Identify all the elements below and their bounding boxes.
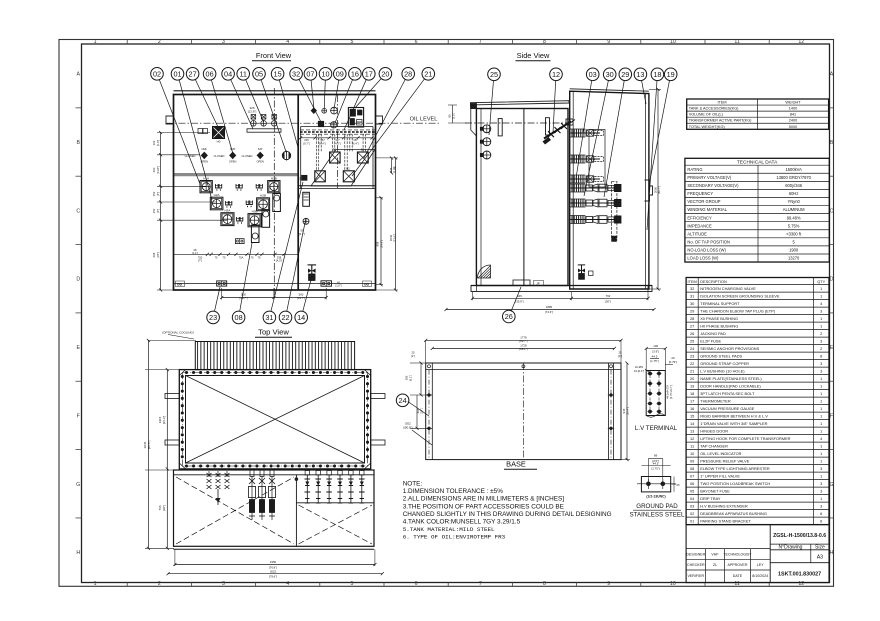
svg-text:100: 100: [653, 344, 658, 348]
svg-text:5: 5: [350, 39, 353, 45]
svg-text:TWO POSITION LOADBREAK SWITCH: TWO POSITION LOADBREAK SWITCH: [700, 481, 770, 486]
svg-text:3: 3: [222, 581, 225, 587]
callout 17: [363, 68, 376, 81]
side view left top dim 85: [452, 105, 454, 123]
top view tank flange rect: [179, 370, 370, 469]
svg-text:10: 10: [670, 39, 676, 45]
svg-text:LEY: LEY: [757, 563, 764, 567]
top view cabinet divider horizontal right: [296, 502, 374, 504]
svg-text:[6.4"]: [6.4"]: [319, 141, 325, 145]
svg-text:WINDING MATERIAL: WINDING MATERIAL: [687, 207, 727, 212]
svg-text:OML: OML: [201, 147, 207, 151]
svg-text:G: G: [829, 482, 833, 488]
svg-text:1: 1: [820, 376, 822, 381]
front view vertical centerline left compartment: [273, 88, 275, 296]
svg-text:[30"]: [30"]: [162, 505, 166, 511]
svg-text:[36.3"]: [36.3"]: [162, 416, 166, 425]
top view bottom overall dim: [168, 573, 382, 575]
svg-text:[72.6"]: [72.6"]: [393, 234, 397, 242]
svg-text:[4.6"]: [4.6"]: [334, 141, 340, 145]
front interior dimension chain: [173, 253, 298, 255]
svg-text:3: 3: [820, 361, 822, 366]
svg-text:N°Drawing: N°Drawing: [779, 545, 803, 551]
inner border frame: [82, 44, 830, 583]
HV nitrogen charging valve block: [318, 121, 323, 126]
svg-text:H: H: [76, 550, 80, 556]
svg-text:[19.7"]: [19.7"]: [240, 296, 248, 300]
front foot pad left: [217, 281, 227, 286]
svg-text:ELBOW TYPE LIGHTNING ARRESTER: ELBOW TYPE LIGHTNING ARRESTER: [700, 466, 770, 471]
svg-text:GROUND STRAP COPPER: GROUND STRAP COPPER: [700, 361, 749, 366]
svg-text:JACKING PAD: JACKING PAD: [700, 331, 726, 336]
ground pad plate: [641, 477, 670, 492]
base left rail: [431, 363, 433, 460]
svg-text:LIFTING HOOK FOR COMPLETE TRAN: LIFTING HOOK FOR COMPLETE TRANSFORMER: [700, 436, 790, 441]
svg-text:[Ø0.9"]: [Ø0.9"]: [404, 425, 413, 429]
svg-text:H0: H0: [217, 140, 221, 144]
svg-text:[1"]: [1"]: [618, 354, 622, 358]
svg-text:1: 1: [820, 391, 822, 396]
front view right lifting lug: [376, 116, 383, 124]
svg-text:1: 1: [820, 451, 822, 456]
svg-text:2: 2: [158, 581, 161, 587]
top view cabinet top flange lines: [174, 474, 375, 476]
elbow terminal pair row1 b: [236, 184, 242, 188]
svg-text:D: D: [76, 277, 80, 283]
svg-text:TAP CHANGER: TAP CHANGER: [700, 443, 728, 448]
side view cabinet lower valve: [581, 265, 583, 280]
svg-text:OIL LEVEL INDICATOR: OIL LEVEL INDICATOR: [700, 451, 741, 456]
svg-text:GD: GD: [364, 283, 370, 287]
ground pad holes: [646, 482, 650, 486]
svg-text:WEIGHT: WEIGHT: [785, 101, 801, 105]
svg-text:NAME PLATE(STAINLESS STEEL): NAME PLATE(STAINLESS STEEL): [700, 376, 762, 381]
callout 08: [232, 311, 245, 324]
HV small gauge below: [303, 218, 309, 224]
svg-text:A3: A3: [817, 555, 823, 561]
front view right dimension line B: [395, 158, 397, 290]
side view tank body: [476, 109, 568, 286]
svg-text:PRIMARY VOLTAGE(V): PRIMARY VOLTAGE(V): [687, 175, 731, 180]
svg-text:12: 12: [798, 581, 804, 587]
svg-text:RATING: RATING: [687, 167, 702, 172]
svg-text:Top View: Top View: [258, 328, 289, 337]
LV bushing H3B: [248, 214, 261, 227]
svg-text:(1/2-13UNC): (1/2-13UNC): [646, 495, 665, 499]
side view HV bushing stack rows upper: [570, 132, 600, 134]
top view middle bayonet assemblies: [250, 470, 254, 477]
svg-text:CLOSED: CLOSED: [214, 154, 225, 158]
svg-text:1: 1: [94, 39, 97, 45]
callout 31: [263, 311, 276, 324]
svg-text:FREQUENCY: FREQUENCY: [687, 191, 713, 196]
svg-text:YNyn0: YNyn0: [788, 199, 801, 204]
side view H0 bushing diagonal: [544, 121, 571, 138]
svg-text:1"DRAIN VALVE WITH 3/8" SAMPLE: 1"DRAIN VALVE WITH 3/8" SAMPLER: [700, 421, 767, 426]
base right rail: [608, 363, 610, 460]
weight table: [687, 99, 829, 129]
svg-text:[34.9"]: [34.9"]: [379, 240, 383, 248]
svg-text:[11.8"]: [11.8"]: [156, 166, 160, 174]
svg-text:02: 02: [153, 69, 161, 78]
HV compartment hatch band: [300, 129, 375, 131]
svg-text:19: 19: [690, 383, 694, 388]
svg-text:H: H: [830, 550, 834, 556]
base top bar: [426, 369, 621, 371]
callout 02: [151, 68, 164, 81]
svg-text:25: 25: [619, 351, 622, 355]
svg-text:9: 9: [607, 39, 610, 45]
svg-text:[68.1"]: [68.1"]: [519, 347, 527, 351]
svg-text:ITEM: ITEM: [718, 101, 727, 105]
svg-text:13: 13: [636, 70, 644, 79]
svg-text:31: 31: [690, 293, 694, 298]
side view corner gusset hatched: [478, 265, 491, 278]
svg-text:5.TANK MATERIAL:MILD STEEL: 5.TANK MATERIAL:MILD STEEL: [403, 526, 495, 533]
outer border frame: [59, 40, 834, 587]
front oil level right dim 85: [391, 158, 393, 173]
svg-text:DEADBREAK APPARATUS BUSHING: DEADBREAK APPARATUS BUSHING: [700, 511, 767, 516]
svg-text:23: 23: [209, 313, 217, 322]
side view base skid: [471, 285, 652, 287]
svg-text:06: 06: [206, 69, 214, 78]
svg-text:30: 30: [606, 70, 614, 79]
svg-text:1885: 1885: [546, 305, 553, 309]
elbow terminal pair row3 a: [237, 217, 243, 221]
svg-text:12: 12: [552, 70, 560, 79]
svg-text:44.5: 44.5: [653, 461, 659, 465]
svg-text:[36.4"]: [36.4"]: [626, 407, 630, 415]
svg-text:CHECKER: CHECKER: [687, 563, 705, 567]
svg-text:DATE: DATE: [733, 574, 743, 578]
svg-text:G: G: [76, 482, 80, 488]
svg-text:LOAD LOSS (W): LOAD LOSS (W): [687, 256, 719, 261]
title block staff grid: [686, 548, 770, 550]
svg-text:ZL: ZL: [713, 563, 717, 567]
svg-text:NO-LOAD LOSS (W): NO-LOAD LOSS (W): [687, 248, 726, 253]
HV upper fill valve diamond: [311, 107, 317, 114]
front view vertical centerline HV compartment: [336, 95, 338, 188]
svg-text:8: 8: [543, 581, 546, 587]
svg-text:1: 1: [820, 443, 822, 448]
svg-text:31: 31: [265, 313, 273, 322]
top view LV cabinet rect: [174, 470, 375, 546]
svg-text:CHANGED SLIGHTLY IN THIS DRAWI: CHANGED SLIGHTLY IN THIS DRAWING DURING …: [403, 511, 612, 518]
svg-text:GROUND PAD: GROUND PAD: [636, 503, 678, 510]
HV deadbreak bushing B1 upper: [330, 152, 341, 163]
name plate stainless steel: [348, 108, 363, 128]
svg-text:1SKT.001.830027: 1SKT.001.830027: [778, 572, 821, 578]
svg-text:[79.6"]: [79.6"]: [269, 575, 277, 579]
svg-text:26: 26: [505, 312, 513, 321]
ground pad thickness dim: [673, 477, 675, 492]
svg-text:01: 01: [690, 518, 694, 523]
loadbreak switch diamond 2: [229, 152, 236, 160]
bayonet fuse indicator circle: [282, 151, 290, 159]
svg-text:IMPEDANCE: IMPEDANCE: [687, 223, 712, 228]
svg-text:3: 3: [820, 466, 822, 471]
HV oil level indicator small: [322, 108, 327, 113]
svg-text:18: 18: [653, 70, 661, 79]
side view oil level centerline: [465, 122, 570, 124]
svg-text:26: 26: [690, 331, 694, 336]
side view small fitting right of valve: [589, 271, 594, 276]
svg-text:APPROVER: APPROVER: [727, 563, 747, 567]
front right dim extension lines: [376, 157, 399, 159]
svg-text:1.DIMENSION TOLERANCE : ±5%: 1.DIMENSION TOLERANCE : ±5%: [403, 488, 504, 495]
svg-text:1: 1: [820, 421, 822, 426]
svg-text:2: 2: [820, 331, 822, 336]
svg-text:762: 762: [606, 294, 611, 298]
base rail anchor dots: [428, 394, 431, 397]
svg-text:[19.7"]: [19.7"]: [297, 296, 305, 300]
front left extension lines: [157, 132, 210, 134]
callout 15: [271, 68, 284, 81]
svg-text:THERMOMETER: THERMOMETER: [700, 398, 731, 403]
svg-text:29: 29: [690, 308, 694, 313]
loadbreak switch diamond 3: [257, 152, 264, 160]
svg-text:60Hz: 60Hz: [789, 191, 799, 196]
svg-text:05: 05: [690, 488, 694, 493]
svg-text:OPEN: OPEN: [257, 160, 264, 164]
svg-text:TECHNICAL DATA: TECHNICAL DATA: [737, 160, 778, 166]
svg-text:NITROGEN CHARGING VALVE: NITROGEN CHARGING VALVE: [700, 286, 756, 291]
svg-text:7: 7: [479, 39, 482, 45]
svg-text:4: 4: [286, 39, 289, 45]
svg-text:6: 6: [415, 581, 418, 587]
top view corner chamfers: [179, 370, 185, 376]
side view cabinet latch bracket: [645, 180, 653, 201]
svg-text:VHF: VHF: [711, 552, 719, 556]
title block size A3 cell: [770, 562, 829, 564]
svg-text:1" UPPER FILL VALVE: 1" UPPER FILL VALVE: [700, 473, 740, 478]
base center dashed line: [522, 363, 524, 460]
svg-text:13800 GRDY/7970: 13800 GRDY/7970: [776, 175, 811, 180]
svg-text:EL2P FUSE: EL2P FUSE: [700, 338, 721, 343]
svg-text:H3A: H3A: [225, 209, 231, 213]
svg-text:600y/346: 600y/346: [785, 183, 803, 188]
front view left dimension line: [160, 133, 162, 291]
svg-text:DRIP TRAY: DRIP TRAY: [700, 496, 721, 501]
svg-text:H1B: H1B: [271, 176, 277, 180]
svg-text:22: 22: [281, 313, 289, 322]
callout 20: [379, 68, 392, 81]
svg-text:BAYONET FUSE: BAYONET FUSE: [700, 488, 730, 493]
svg-text:X0 PHASE BUSHING: X0 PHASE BUSHING: [700, 316, 738, 321]
callout 24: [396, 394, 409, 407]
svg-text:20: 20: [381, 69, 389, 78]
svg-text:4.TANK COLOR:MUNSELL 7GY 3.29/: 4.TANK COLOR:MUNSELL 7GY 3.29/1.5: [403, 519, 521, 526]
svg-text:[80.7"]: [80.7"]: [657, 186, 661, 194]
H0 phase bushing front: [213, 127, 225, 139]
svg-text:11: 11: [734, 39, 739, 45]
HV deadbreak bushing B2 upper: [357, 152, 368, 163]
svg-text:EFFICIENCY: EFFICIENCY: [687, 215, 712, 220]
svg-text:1950: 1950: [270, 560, 277, 564]
svg-text:4: 4: [286, 581, 289, 587]
top view left overall dim: [147, 340, 149, 548]
side view bottom overall dimension: [446, 309, 654, 311]
callout 30: [603, 68, 616, 81]
svg-text:8/10/2024: 8/10/2024: [752, 574, 768, 578]
top view cabinet diagonals right: [299, 505, 373, 544]
LV terminal holes: [648, 372, 651, 375]
callout 18: [651, 68, 664, 81]
svg-text:3: 3: [820, 481, 822, 486]
svg-text:22: 22: [690, 361, 694, 366]
side view jacking pad detail: [513, 280, 530, 286]
svg-text:28: 28: [690, 316, 694, 321]
svg-text:1: 1: [820, 496, 822, 501]
lightning arrester capsule 2: [262, 210, 270, 228]
svg-text:SAT: SAT: [258, 147, 263, 151]
LV bushing H1B: [268, 181, 280, 193]
top view diagonal braces: [186, 376, 365, 464]
HV barrier box verticals: [300, 127, 302, 190]
svg-text:H2A: H2A: [214, 193, 220, 197]
callout 01: [171, 68, 184, 81]
top view flange centerline dashed rect: [182, 373, 367, 467]
svg-text:3PT LATCH PENTA SEC BOLT: 3PT LATCH PENTA SEC BOLT: [700, 391, 755, 396]
svg-text:[3.9"]: [3.9"]: [652, 349, 659, 353]
svg-text:23: 23: [690, 353, 694, 358]
front view HV compartment horizontal divider: [298, 185, 375, 187]
svg-text:11: 11: [239, 69, 247, 78]
svg-text:Front View: Front View: [256, 51, 292, 60]
callout 16: [349, 68, 362, 81]
svg-text:09: 09: [690, 458, 694, 463]
svg-text:05: 05: [255, 69, 263, 78]
svg-text:3: 3: [820, 503, 822, 508]
svg-text:24: 24: [399, 396, 407, 405]
svg-text:29: 29: [621, 70, 629, 79]
svg-text:03: 03: [690, 503, 694, 508]
svg-text:[12.8"]: [12.8"]: [248, 110, 257, 114]
svg-text:TECHNOLOGIST: TECHNOLOGIST: [723, 552, 752, 556]
svg-text:1: 1: [820, 323, 822, 328]
svg-text:2400: 2400: [789, 119, 797, 123]
svg-text:21: 21: [690, 368, 694, 373]
grid row ticks left and right: [76, 107, 82, 109]
svg-text:01: 01: [173, 69, 181, 78]
top view cabinet diagonals left: [176, 477, 294, 544]
LV bushing H3A: [221, 213, 234, 226]
svg-text:1: 1: [820, 316, 822, 321]
top view left height dims: [166, 370, 168, 549]
technical data table: [685, 158, 829, 262]
svg-text:DESCRIPTION: DESCRIPTION: [700, 279, 727, 284]
top view cabinet divider vertical: [295, 475, 297, 547]
LV bushing H1A: [200, 181, 212, 193]
svg-text:SECONDARY VOLTAGE(V): SECONDARY VOLTAGE(V): [687, 183, 739, 188]
title block ndrawing size header: [770, 549, 829, 551]
svg-text:11: 11: [690, 443, 694, 448]
svg-text:1: 1: [820, 293, 822, 298]
svg-text:1: 1: [820, 383, 822, 388]
svg-text:08: 08: [690, 466, 694, 471]
HV bushing drop lines: [318, 134, 320, 152]
top view left tabs: [165, 394, 179, 399]
drain valve with sampler front: [311, 265, 313, 282]
svg-text:32: 32: [690, 286, 694, 291]
front view horizontal centerline oil level: [166, 122, 440, 124]
svg-text:2: 2: [820, 346, 822, 351]
svg-text:44.5: 44.5: [652, 354, 658, 358]
svg-text:H3B: H3B: [252, 209, 258, 213]
front foot pad right: [321, 281, 332, 286]
lightning arrester capsule 1: [273, 194, 281, 212]
parts list table: [686, 278, 829, 525]
svg-text:10-[0.4"]: 10-[0.4"]: [634, 369, 644, 373]
HV dim row line: [300, 137, 373, 139]
HV vacuum gauge: [331, 122, 337, 128]
svg-text:NOTE:: NOTE:: [403, 481, 423, 488]
svg-text:Side View: Side View: [517, 51, 550, 60]
svg-text:A: A: [76, 72, 80, 78]
HV deadbreak bushing B2 lower: [343, 171, 354, 182]
svg-text:3: 3: [820, 338, 822, 343]
svg-text:16: 16: [690, 406, 694, 411]
side view bottom dimension line right: [572, 297, 649, 299]
svg-text:14: 14: [297, 313, 305, 322]
svg-text:25: 25: [677, 483, 680, 487]
callout 28: [402, 68, 415, 81]
svg-text:841: 841: [790, 113, 796, 117]
callout 27: [186, 68, 199, 81]
callout 19: [664, 68, 677, 81]
front view tank outline: [174, 95, 376, 291]
svg-text:[?"]: [?"]: [198, 259, 202, 263]
svg-text:QTY: QTY: [817, 279, 825, 284]
svg-text:1: 1: [820, 398, 822, 403]
svg-text:B2: B2: [346, 166, 350, 170]
callout 22: [279, 311, 292, 324]
svg-text:1: 1: [820, 473, 822, 478]
svg-text:STAINLESS STEEL: STAINLESS STEEL: [630, 512, 685, 519]
svg-text:TRANSFORMER ACTIVE PART(KG): TRANSFORMER ACTIVE PART(KG): [689, 119, 752, 123]
svg-text:03: 03: [589, 70, 597, 79]
svg-text:08: 08: [235, 313, 243, 322]
svg-text:85: 85: [393, 166, 397, 169]
svg-text:3: 3: [820, 368, 822, 373]
side view bottom dimension line left: [473, 297, 572, 299]
HV pressure relief device: [331, 107, 338, 114]
svg-text:[80.6"]: [80.6"]: [147, 441, 151, 450]
svg-text:[1.75"]: [1.75"]: [651, 467, 659, 471]
LV terminal plate: [646, 371, 665, 416]
svg-text:No. OF TAP POSITION: No. OF TAP POSITION: [687, 239, 730, 244]
callout 05: [253, 68, 266, 81]
svg-text:44.5x4=178: 44.5x4=178: [666, 385, 670, 399]
callout 11: [237, 68, 250, 81]
svg-text:[30"]: [30"]: [605, 299, 611, 303]
svg-text:7: 7: [479, 581, 482, 587]
svg-text:75A: 75A: [239, 256, 244, 260]
LV compartment small junction box: [235, 239, 244, 244]
ground pad dim lines: [648, 458, 662, 460]
base right height dim: [626, 363, 628, 460]
svg-text:VOLUME OF OIL(L): VOLUME OF OIL(L): [689, 113, 724, 117]
HV deadbreak bushing B1 lower: [315, 171, 326, 182]
svg-text:[1.8"]: [1.8"]: [336, 284, 342, 288]
svg-text:21: 21: [424, 69, 432, 78]
svg-text:OIL LEVEL: OIL LEVEL: [410, 117, 438, 123]
svg-text:6: 6: [415, 39, 418, 45]
svg-text:15: 15: [690, 413, 694, 418]
svg-text:1: 1: [820, 406, 822, 411]
svg-text:12: 12: [690, 436, 694, 441]
top view flange bolts top and bottom: [185, 371, 188, 374]
